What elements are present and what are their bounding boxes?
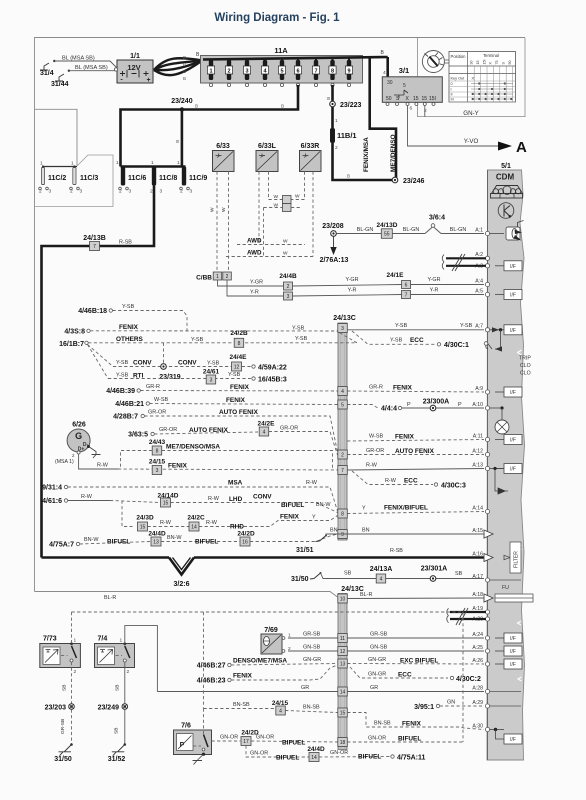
- svg-text:GN-GR: GN-GR: [303, 657, 321, 663]
- svg-text:Y: Y: [362, 506, 366, 512]
- svg-text:CLO: CLO: [520, 363, 531, 369]
- svg-text:7/6: 7/6: [181, 723, 191, 730]
- svg-text:16/1B:7: 16/1B:7: [59, 341, 84, 348]
- svg-text:GN-OR: GN-OR: [256, 735, 274, 741]
- svg-text:23/240: 23/240: [171, 98, 193, 105]
- connector strip 24/13C lower: [338, 594, 347, 750]
- svg-text:6: 6: [405, 283, 408, 289]
- svg-text:A:25: A:25: [472, 645, 483, 651]
- svg-text:GR-R: GR-R: [369, 385, 383, 391]
- wire SB 7/4 down to 23/249: [124, 662, 126, 704]
- strip lower 24/13C pin 13: [338, 659, 348, 668]
- svg-text:1: 1: [151, 160, 154, 166]
- svg-text:ECC: ECC: [404, 478, 418, 485]
- strip 24/13C pin 4: [338, 387, 348, 396]
- fusebox 11A: [201, 56, 363, 84]
- svg-text:3/6:4: 3/6:4: [429, 215, 445, 222]
- svg-text:8: 8: [156, 449, 159, 455]
- svg-text:12: 12: [234, 365, 240, 371]
- fuse 11A-6: [296, 60, 300, 80]
- wire strip pin 5 to 4/4:4 and 23/300A to A:10: [347, 405, 378, 409]
- svg-text:3: 3: [156, 468, 159, 474]
- svg-text:15: 15: [140, 525, 146, 531]
- svg-text:31/52: 31/52: [108, 756, 126, 763]
- svg-text:23/249: 23/249: [98, 705, 120, 712]
- svg-text:GR-OR: GR-OR: [148, 410, 166, 416]
- svg-text:GR-OR: GR-OR: [280, 426, 298, 432]
- CDM wires inside bar: [490, 233, 504, 235]
- svg-text:BL-GN: BL-GN: [403, 227, 420, 233]
- svg-text:I/F: I/F: [510, 438, 516, 444]
- svg-text:B: B: [175, 140, 180, 143]
- svg-text:GN-GR: GN-GR: [368, 657, 386, 663]
- wire Y-VO ignition X to arrow A: [408, 106, 499, 147]
- svg-text:50: 50: [386, 96, 392, 102]
- svg-text:CONV: CONV: [253, 494, 272, 501]
- svg-text:23/246: 23/246: [403, 178, 425, 185]
- wire GN-Y ignition pin 15: [424, 106, 426, 117]
- wire BN-SB row to 24/15 pin 4 and strip pin 15: [204, 708, 276, 710]
- svg-text:7: 7: [341, 468, 344, 474]
- svg-text:I: I: [451, 88, 452, 92]
- svg-text:BN-SB: BN-SB: [233, 702, 250, 708]
- svg-text:3/1: 3/1: [399, 66, 409, 75]
- trunk wire R-SB bottom run to A:16 with inline connector 3/2:6: [42, 556, 170, 559]
- wire GN-OR BIFUEL to strip pin 18: [251, 741, 338, 742]
- svg-text:R-W: R-W: [208, 496, 220, 502]
- wire Y-R 24/4B to 24/1E: [293, 295, 402, 297]
- strip lower 24/13C pin 14: [338, 687, 348, 696]
- svg-text:W: W: [283, 239, 288, 245]
- svg-text:RHD: RHD: [230, 524, 244, 531]
- svg-text:Y-SB: Y-SB: [191, 337, 204, 343]
- fuse 11B/1: [330, 128, 335, 143]
- svg-text:A:26: A:26: [472, 658, 483, 664]
- svg-text:R-SB: R-SB: [390, 548, 403, 554]
- branch 16/1B:7 down to CONV and RTI rows: [88, 345, 114, 367]
- svg-text:AWD: AWD: [247, 250, 262, 257]
- svg-text:A:15: A:15: [472, 528, 483, 534]
- svg-text:2: 2: [226, 274, 229, 280]
- terminal 16/45B:3: [252, 377, 255, 380]
- RTI row to 16/45B:3: [108, 378, 251, 380]
- svg-text:P: P: [407, 402, 411, 408]
- svg-text:1: 1: [120, 638, 123, 644]
- svg-text:Y-SB: Y-SB: [460, 323, 473, 329]
- svg-text:ME7/DENSO: ME7/DENSO: [390, 134, 397, 172]
- svg-text:7/4: 7/4: [98, 636, 108, 643]
- fuse 11A-4: [263, 60, 267, 80]
- svg-text:24/15: 24/15: [149, 459, 166, 466]
- svg-text:Y-R: Y-R: [430, 288, 439, 294]
- svg-text:Key Out: Key Out: [451, 77, 466, 81]
- CDM wires A:24 A:25 A:26 A:28 A:29 to right: [490, 579, 521, 581]
- svg-text:Y-SB: Y-SB: [116, 360, 129, 366]
- svg-text:Y-SB: Y-SB: [207, 361, 220, 367]
- svg-text:GR-SB: GR-SB: [60, 719, 66, 734]
- svg-text:GR-SB: GR-SB: [303, 632, 321, 638]
- I/F boxes: [495, 261, 522, 744]
- svg-text:CLO: CLO: [520, 371, 531, 377]
- svg-text:23/319: 23/319: [159, 374, 181, 381]
- wire GR-R FENIX strip pin 4 to A:9: [347, 391, 484, 392]
- svg-text:7: 7: [314, 69, 317, 75]
- svg-text:24/4D: 24/4D: [148, 531, 166, 538]
- svg-text:24/61: 24/61: [203, 369, 220, 376]
- svg-text:15: 15: [413, 96, 419, 102]
- svg-text:Y-R: Y-R: [250, 290, 259, 296]
- svg-text:Y-GR: Y-GR: [346, 277, 359, 283]
- svg-text:3: 3: [129, 189, 132, 195]
- svg-text:11C/3: 11C/3: [80, 175, 98, 182]
- svg-text:BN-SB: BN-SB: [374, 721, 391, 727]
- svg-text:ECC: ECC: [410, 337, 424, 344]
- svg-text:CDM: CDM: [496, 173, 515, 182]
- branch ECC row to 4/30C:1: [352, 331, 436, 344]
- CDM A:1 gauge icon: [506, 227, 520, 240]
- branch ECC 4/30C:2 from strip pin 13: [350, 667, 448, 678]
- svg-text:Y-R: Y-R: [348, 288, 357, 294]
- svg-text:FENIX: FENIX: [226, 397, 246, 404]
- wire Y-GR 24/4B to 24/1E: [293, 285, 402, 287]
- svg-text:W-SB: W-SB: [369, 434, 383, 440]
- svg-text:7: 7: [405, 293, 408, 299]
- svg-text:SB: SB: [344, 571, 352, 577]
- svg-text:24/13C: 24/13C: [333, 315, 356, 322]
- svg-text:GN-Y: GN-Y: [463, 110, 478, 117]
- branch 4/61:6 down to RHD row: [122, 501, 133, 527]
- svg-text:FENIX: FENIX: [393, 385, 413, 392]
- svg-text:R-W: R-W: [306, 480, 318, 486]
- strip 24/13C pin 8: [338, 509, 348, 518]
- svg-text:C/BB: C/BB: [196, 275, 212, 282]
- wire R-W 6/26 to strip pin 7 solid then dashed: [77, 451, 80, 454]
- svg-text:6/33: 6/33: [216, 143, 230, 150]
- wire fuse8 down to 23/223 and 11B/1: [331, 85, 334, 128]
- svg-text:A:28: A:28: [472, 685, 483, 691]
- svg-text:AUTO FENIX: AUTO FENIX: [189, 427, 229, 434]
- svg-text:30: 30: [387, 80, 393, 86]
- svg-text:Y-SB: Y-SB: [395, 323, 408, 329]
- svg-text:8: 8: [341, 512, 344, 518]
- svg-text:11: 11: [340, 636, 345, 642]
- connector W pair squares: [283, 196, 292, 204]
- strip lower 24/13C pin 10: [338, 594, 348, 603]
- wire BL-GN 3/6:4 to A:1: [441, 233, 484, 235]
- branch 24/43 left down to R-W row: [121, 451, 153, 470]
- svg-text:2: 2: [227, 69, 230, 75]
- fuse 11C/6: [121, 167, 125, 186]
- wire GN-GR EXC BIFUEL strip pin 13 to A:26: [347, 663, 484, 666]
- key symbol circle: [422, 51, 444, 73]
- svg-text:31/4: 31/4: [40, 70, 54, 77]
- svg-text:7/69: 7/69: [264, 627, 278, 634]
- svg-text:23/301A: 23/301A: [421, 566, 447, 573]
- connector strip 24/13C upper: [338, 323, 347, 540]
- svg-text:3/63:5: 3/63:5: [128, 432, 148, 439]
- svg-text:Y: Y: [312, 515, 316, 521]
- connector 24/15 pin 4 bottom: [276, 706, 286, 715]
- svg-text:R-W: R-W: [160, 520, 172, 526]
- svg-text:BIFUEL: BIFUEL: [276, 755, 299, 762]
- svg-text:BN-W: BN-W: [167, 535, 182, 541]
- svg-text:W-SB: W-SB: [154, 397, 168, 403]
- wire C/BB to 24/4B Y-GR: [218, 280, 284, 286]
- svg-text:I/F: I/F: [510, 636, 516, 642]
- svg-text:55: 55: [384, 232, 390, 238]
- svg-text:4/46B:27: 4/46B:27: [197, 663, 226, 670]
- svg-text:I/F: I/F: [510, 662, 516, 668]
- svg-text:11C/8: 11C/8: [159, 175, 177, 182]
- wire BL-GN 23/208 to 24/13D: [336, 233, 381, 235]
- svg-text:2: 2: [335, 145, 338, 151]
- strip lower 24/13C pin 18: [338, 738, 348, 747]
- CDM gauge cluster icon: [492, 186, 523, 194]
- svg-text:Y-SB: Y-SB: [116, 373, 129, 379]
- svg-text:A:1: A:1: [475, 227, 483, 233]
- battery 1/1 12V: [117, 60, 153, 83]
- svg-text:AWD: AWD: [247, 238, 262, 245]
- svg-text:BL-R: BL-R: [104, 595, 116, 601]
- svg-text:G: G: [75, 431, 82, 441]
- svg-text:13: 13: [340, 662, 346, 668]
- svg-text:6: 6: [296, 69, 299, 75]
- fuse 11C/3: [72, 167, 76, 185]
- svg-text:9: 9: [347, 69, 350, 75]
- svg-text:24/4D: 24/4D: [307, 746, 325, 753]
- svg-text:TRIP: TRIP: [519, 356, 531, 362]
- strip lower 24/13C pin 12: [338, 647, 348, 656]
- svg-text:B: B: [347, 174, 350, 179]
- svg-text:15: 15: [340, 711, 346, 717]
- svg-text:CONV: CONV: [178, 360, 197, 367]
- svg-text:R-W: R-W: [385, 478, 397, 484]
- svg-text:Y-SB: Y-SB: [390, 338, 403, 344]
- svg-text:4/75A:11: 4/75A:11: [397, 755, 426, 762]
- svg-text:R-W: R-W: [206, 520, 218, 526]
- svg-text:4/75A:7: 4/75A:7: [49, 542, 74, 549]
- svg-text:31/50: 31/50: [54, 756, 72, 763]
- svg-text:11C/6: 11C/6: [128, 175, 146, 182]
- svg-text:2: 2: [74, 669, 77, 675]
- svg-text:BL (MSA SB): BL (MSA SB): [62, 56, 95, 62]
- svg-text:12: 12: [340, 649, 346, 655]
- svg-text:I/F: I/F: [510, 467, 516, 473]
- svg-text:BIFUEL: BIFUEL: [398, 736, 421, 743]
- svg-text:Y-SB: Y-SB: [122, 304, 135, 310]
- svg-text:4/30C:1: 4/30C:1: [444, 342, 469, 349]
- svg-text:GR-SB: GR-SB: [370, 632, 388, 638]
- wire GR-OR AUTO FENIX strip pin 2 to A:12: [347, 454, 484, 456]
- svg-text:A:18: A:18: [472, 592, 483, 598]
- CDM A:10 bulb icon: [490, 407, 502, 409]
- connector 24/13B pin 7: [90, 242, 100, 251]
- svg-text:P: P: [458, 402, 462, 408]
- svg-text:BIFUEL: BIFUEL: [195, 539, 218, 546]
- svg-text:GR: GR: [301, 685, 309, 691]
- svg-text:Y-SB: Y-SB: [228, 372, 241, 378]
- svg-text:0: 0: [451, 82, 453, 86]
- svg-text:BIFUEL: BIFUEL: [107, 539, 130, 546]
- svg-text:FU: FU: [502, 585, 509, 591]
- svg-text:5: 5: [403, 83, 406, 89]
- svg-text:GN-OR: GN-OR: [220, 735, 238, 741]
- wire 7/4 pin1 loop to GR row pin 14: [125, 626, 158, 692]
- svg-text:17: 17: [243, 739, 249, 745]
- wire joining 11C/2 and 11C/3 tops: [43, 166, 77, 168]
- svg-text:AUTO FENIX: AUTO FENIX: [395, 448, 435, 455]
- svg-text:B: B: [195, 104, 198, 109]
- svg-text:23/223: 23/223: [340, 102, 362, 109]
- GN-Y box around ignition: [418, 38, 526, 117]
- svg-text:Terminal: Terminal: [483, 53, 499, 58]
- CDM A:19 A:20 stubs with shield: [450, 611, 486, 613]
- wire Y-GR 24/1E to A:4: [411, 284, 485, 286]
- wire 23/240 down to 11C fuses top rail: [181, 110, 184, 167]
- svg-text:2: 2: [287, 284, 290, 290]
- ground 31/50 bottom left: [70, 743, 73, 746]
- wire row 24/4D GN-OR BIFUEL to 4/75A:11: [246, 746, 309, 758]
- wire GR to strip pin 14: [157, 691, 337, 693]
- svg-text:2: 2: [150, 189, 153, 195]
- wire GN-OR BIFUEL to terminal 4/75A:11: [319, 756, 390, 759]
- svg-text:2/76A:13: 2/76A:13: [320, 257, 349, 264]
- svg-text:8: 8: [331, 69, 334, 75]
- strip 24/13C pin 3: [338, 324, 348, 333]
- svg-text:24/1E: 24/1E: [387, 272, 405, 279]
- svg-text:4: 4: [383, 70, 386, 76]
- svg-text:1: 1: [209, 69, 212, 75]
- svg-text:15I: 15I: [429, 96, 436, 102]
- svg-text:W: W: [273, 194, 278, 200]
- svg-text:FENIX: FENIX: [119, 324, 139, 331]
- svg-text:BN-SB: BN-SB: [303, 705, 320, 711]
- wire fuse6 down to 23/240 rail: [121, 85, 299, 167]
- wire feed down to 7/6: [203, 709, 205, 735]
- svg-text:GN-OR: GN-OR: [330, 750, 348, 756]
- svg-text:3: 3: [160, 189, 163, 195]
- wire AWD row 2: [226, 256, 313, 258]
- svg-text:16/45B:3: 16/45B:3: [258, 377, 287, 384]
- CDM A:2 A:3 shielded stubs: [446, 257, 486, 259]
- svg-text:FILTER: FILTER: [514, 551, 520, 568]
- svg-text:R-W: R-W: [366, 463, 378, 469]
- svg-text:4/30C:3: 4/30C:3: [441, 483, 466, 490]
- CONV row with junction 23/319 to 4/59A:22: [113, 366, 251, 368]
- ignition switch 3/1: [382, 77, 442, 103]
- svg-text:6: 6: [410, 106, 413, 112]
- 7/6 ground: [202, 753, 205, 756]
- svg-text:SB: SB: [455, 571, 463, 577]
- svg-text:3: 3: [80, 189, 83, 195]
- svg-text:Y-SB: Y-SB: [295, 336, 308, 342]
- wire GN-OR BIFUEL strip pin 18 to A:30 branch: [347, 741, 463, 743]
- svg-text:I/F: I/F: [510, 328, 516, 334]
- svg-text:24/2E: 24/2E: [258, 421, 276, 428]
- svg-text:30: 30: [470, 61, 474, 65]
- wire ignition feed down from bus to 23/246: [370, 57, 396, 180]
- fuse 11A-7: [314, 60, 318, 80]
- svg-text:RTI: RTI: [133, 373, 144, 380]
- svg-text:7: 7: [93, 244, 96, 250]
- battery positive harness fan to fusebox 11A: [154, 58, 202, 70]
- wire BL-GN 24/13D to 3/6:4: [392, 233, 425, 235]
- svg-text:4/3S:8: 4/3S:8: [64, 329, 85, 336]
- svg-text:24/13A: 24/13A: [370, 566, 393, 573]
- svg-text:ECC: ECC: [398, 672, 412, 679]
- svg-text:I/F: I/F: [510, 390, 516, 396]
- svg-text:A:19: A:19: [472, 606, 483, 612]
- svg-text:Y-SB: Y-SB: [292, 326, 305, 332]
- svg-text:4/46B:18: 4/46B:18: [78, 308, 107, 315]
- svg-text:W: W: [283, 251, 288, 257]
- wire Y FENIX/BIFUEL strip pin 8 to A:14: [347, 512, 484, 514]
- svg-text:GR-R: GR-R: [146, 384, 160, 390]
- wire 7/6 to 24/2D GN-OR BIFUEL row: [212, 740, 241, 742]
- svg-text:10: 10: [340, 597, 346, 603]
- svg-text:23/300A: 23/300A: [423, 399, 449, 406]
- svg-text:11C/9: 11C/9: [189, 175, 207, 182]
- left border vertical lower + bottom BL-R border: [34, 207, 36, 592]
- CDM A:16 filter: [504, 555, 510, 559]
- svg-text:GN-OR: GN-OR: [250, 751, 268, 757]
- svg-text:A:10: A:10: [472, 402, 483, 408]
- junction 23/240: [180, 107, 184, 111]
- svg-text:SB: SB: [115, 685, 121, 691]
- junction 23/319: [161, 364, 167, 370]
- svg-text:3/95:1: 3/95:1: [414, 704, 434, 711]
- svg-text:BIFUEL: BIFUEL: [358, 754, 381, 761]
- svg-text:14: 14: [340, 690, 346, 696]
- wire 6/33R pins to W connector and AWD row 2: [291, 172, 305, 200]
- svg-text:3: 3: [287, 294, 290, 300]
- wire 11B/1 down to 23/246: [333, 143, 395, 180]
- svg-text:B: B: [183, 69, 186, 74]
- svg-text:FENIX/MSA: FENIX/MSA: [363, 137, 370, 172]
- inline connector 3/2:6 chevron: [169, 558, 194, 575]
- svg-text:3: 3: [341, 326, 344, 332]
- svg-text:23/208: 23/208: [322, 223, 344, 230]
- svg-text:AUTO FENIX: AUTO FENIX: [219, 409, 259, 416]
- svg-text:15: 15: [476, 61, 480, 65]
- wire GR strip pin 14 to A:28: [347, 691, 484, 693]
- svg-text:50: 50: [508, 60, 512, 64]
- svg-text:14: 14: [191, 525, 197, 531]
- svg-text:11B/1: 11B/1: [337, 131, 357, 140]
- svg-text:5: 5: [341, 403, 344, 409]
- svg-text:1: 1: [71, 161, 74, 167]
- svg-text:1: 1: [216, 274, 219, 280]
- svg-text:4: 4: [279, 709, 282, 715]
- svg-text:1: 1: [177, 160, 180, 166]
- svg-text:4/46B:23: 4/46B:23: [197, 678, 226, 685]
- svg-text:FENIX: FENIX: [402, 721, 422, 728]
- svg-text:A:5: A:5: [475, 288, 483, 294]
- svg-text:7/73: 7/73: [43, 636, 57, 643]
- svg-text:13: 13: [153, 540, 159, 546]
- svg-text:FENIX: FENIX: [168, 463, 188, 470]
- LHD row to strip pin 8: [171, 503, 338, 513]
- wire Y-R 24/1E to A:5: [411, 294, 485, 296]
- svg-text:GN-SB: GN-SB: [303, 645, 321, 651]
- svg-text:14: 14: [311, 755, 317, 761]
- CDM A:30 junction to I/F: [490, 729, 504, 731]
- svg-text:16: 16: [242, 540, 248, 546]
- svg-text:4/46B:21: 4/46B:21: [115, 401, 144, 408]
- strip 24/13C pin 5: [338, 400, 348, 409]
- svg-text:A:4: A:4: [475, 278, 483, 284]
- svg-text:I/F: I/F: [510, 264, 516, 270]
